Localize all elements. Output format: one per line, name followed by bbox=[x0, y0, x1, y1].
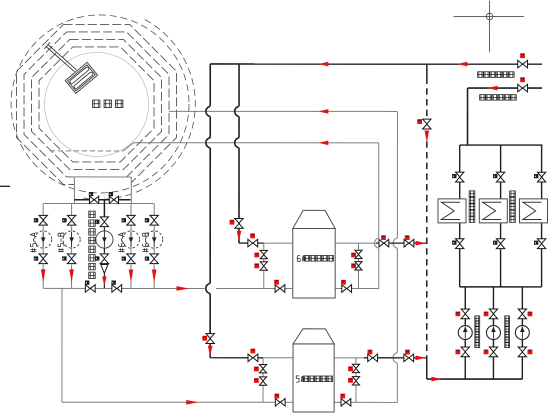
heater E2 inlet branch bbox=[500, 145, 502, 199]
heater E3 outlet branch bbox=[541, 223, 543, 287]
6# condenser (6#机组凝汽器) body bbox=[293, 210, 335, 298]
basin white mask bbox=[74, 177, 131, 204]
pump label #6-B bbox=[142, 233, 148, 252]
HN pump 1 suction branch bbox=[464, 287, 466, 327]
pump 3 circle bbox=[96, 231, 113, 248]
flow arrow left on tower pipe 2 bbox=[319, 141, 329, 146]
pump 3 valve-to-pump pipe bbox=[103, 227, 105, 231]
tower supply pipe 1 horizontal (y=111.4) bbox=[169, 110, 398, 112]
tower pipe 2 diagonal rise bbox=[123, 143, 134, 151]
basin left wall bbox=[73, 177, 75, 204]
pump suction riser #6-A bbox=[130, 204, 132, 216]
HN pump 3 discharge pipe bbox=[521, 340, 523, 380]
bottom line valve left bbox=[274, 394, 285, 407]
pump 1 discharge pipe bbox=[42, 248, 44, 253]
diagonal line end cap bbox=[44, 42, 50, 49]
6# inlet drop pipe (x=239) with jump bumps bbox=[235, 64, 239, 243]
cooling tower octagon ring 2 bbox=[24, 32, 169, 177]
HN pump label 热网循环水泵 (right) bbox=[505, 316, 510, 348]
flow arrow left on return header (right) bbox=[457, 62, 467, 67]
heater E1 outlet valve bbox=[452, 239, 464, 249]
5# left bypass pipe bbox=[262, 358, 264, 403]
6# bottom line valve left bbox=[274, 280, 285, 293]
cooling tower octagon ring 3 bbox=[32, 39, 162, 169]
pump 1 outlet valve bbox=[34, 254, 48, 264]
heater outlet header (y=286.8) bbox=[460, 286, 542, 288]
HN pump label 热网循环水泵 (left) bbox=[475, 316, 480, 348]
heater E1 outlet branch bbox=[459, 223, 461, 287]
heater E1 (热网加热器) body bbox=[438, 199, 466, 223]
heater E2 inlet valve bbox=[493, 172, 505, 182]
new pump label 新增变频循环水泵 (vertical) bbox=[89, 211, 96, 278]
label 热网回水管道 bbox=[478, 72, 515, 78]
flow arrow left on tower pipe 1 bbox=[319, 109, 329, 114]
HN pump 2 discharge valve bbox=[484, 347, 498, 357]
dashed main isolating valve bbox=[417, 119, 431, 129]
pump 4 pipe to header bbox=[130, 264, 132, 288]
heater E3 inlet valve bbox=[534, 172, 546, 182]
flow arrow left on return header (mid) bbox=[319, 62, 329, 67]
header valve 1 bbox=[85, 281, 95, 293]
6# outlet valve 2 bbox=[404, 235, 414, 247]
flow arrow right into dashed main (5#) bbox=[416, 356, 426, 361]
pump 2 pipe to header bbox=[71, 264, 73, 288]
5# left bypass valve lower bbox=[254, 377, 267, 385]
heater E3 outlet valve bbox=[534, 239, 546, 249]
6# right bypass valve upper bbox=[351, 250, 362, 258]
pump 4 circle bbox=[122, 231, 139, 248]
HN pump 2 discharge pipe bbox=[492, 340, 494, 380]
heater E1 inlet valve bbox=[452, 172, 464, 182]
blowdown pipe left vertical (x=62) bbox=[61, 288, 63, 402]
basin top edge bbox=[74, 176, 131, 178]
HN pump 1 (热网循环水泵) bbox=[458, 326, 472, 340]
5# condenser label bbox=[296, 376, 332, 382]
heat-network return header pipe (y=64) bbox=[210, 63, 542, 65]
pump 5 discharge pipe bbox=[153, 248, 155, 253]
pump 5 flow arrow bbox=[152, 269, 157, 282]
5# right bypass valve lower bbox=[348, 377, 359, 385]
5# left bypass valve upper bbox=[254, 364, 267, 372]
6# outlet pipe (y=243.1) bbox=[335, 242, 426, 244]
new pump suction riser (black) bbox=[103, 200, 105, 217]
supply pipe drop to heater header bbox=[467, 88, 469, 145]
pump 4 discharge pipe bbox=[130, 248, 132, 253]
pump 2 circle bbox=[63, 231, 80, 248]
bottom return line (y=402.3) bbox=[62, 401, 397, 403]
heater label 热网加热器 (right) bbox=[510, 191, 516, 223]
flow arrow right on discharge header bbox=[176, 286, 189, 291]
HN pump 3 discharge valve bbox=[518, 347, 532, 357]
header valve 2 bbox=[111, 281, 121, 293]
pump 4 flow arrow bbox=[129, 269, 134, 282]
cooling tower octagon ring 1 (outer) bbox=[17, 24, 177, 184]
cooling tower outer dashed arc (east side) bbox=[83, 20, 195, 200]
tower supply pipe 2 dashed tail inside tower bbox=[50, 150, 123, 152]
pump suction riser #5-B bbox=[71, 204, 73, 216]
CAD crosshair center mark bbox=[453, 1, 524, 52]
heater inlet header (y=145) bbox=[460, 144, 543, 146]
tower internal tilted structure (water distributor box) bbox=[65, 62, 97, 93]
pump 2 inlet valve bbox=[62, 215, 76, 225]
tower label 间冷塔 bbox=[93, 100, 123, 107]
heater E2 outlet valve bbox=[493, 239, 505, 249]
pump label #5-B bbox=[58, 233, 64, 252]
pump 4 outlet valve bbox=[122, 254, 136, 264]
supply pipe valve bbox=[518, 77, 528, 92]
tower access double diagonal line bbox=[46, 45, 76, 72]
5# outlet pipe (y=357.8) bbox=[334, 357, 426, 359]
label 热网供水管道 bbox=[480, 95, 517, 101]
left edge reference tick bbox=[0, 185, 10, 187]
heater E1 inlet branch bbox=[459, 145, 461, 199]
pump 5 valve-to-pump pipe bbox=[153, 226, 155, 231]
pump 1 flow arrow bbox=[41, 269, 46, 282]
forebay top line bbox=[43, 203, 153, 205]
HN pump 1 discharge pipe bbox=[464, 340, 466, 380]
pump 2 outlet valve bbox=[62, 254, 76, 264]
6# right bypass pipe bbox=[357, 243, 359, 288]
5# inlet pipe (y=357.8) bbox=[210, 357, 293, 359]
6# left bypass valve lower bbox=[254, 262, 267, 270]
pump 3 discharge pipe bbox=[103, 248, 105, 253]
tower supply pipe 2 horizontal (y=142.8) bbox=[134, 142, 379, 144]
6# inlet block valve bbox=[248, 233, 258, 247]
pump suction riser #6-B bbox=[153, 204, 155, 216]
6# outlet valve 1 bbox=[379, 235, 389, 247]
new pump pipe to header bbox=[103, 273, 105, 288]
pump 5 pipe to header bbox=[153, 264, 155, 288]
pump 2 discharge pipe bbox=[71, 248, 73, 253]
5# inlet block valve bbox=[248, 349, 258, 362]
pump 5 circle bbox=[146, 231, 163, 248]
pump label #5-A bbox=[30, 233, 36, 253]
HN pump 2 suction branch bbox=[492, 287, 494, 327]
heater label 热网加热器 (left) bbox=[469, 191, 475, 223]
flow arrow down to 6# condenser bbox=[237, 231, 242, 242]
heat-network supply pipe (y=88) bbox=[468, 87, 542, 89]
pump 3 inlet valve bbox=[95, 217, 109, 227]
pump 5 inlet valve bbox=[145, 215, 159, 225]
basin outlet header (black) bbox=[74, 199, 130, 201]
basin right wall bbox=[130, 177, 132, 204]
new pump flow arrow bbox=[102, 276, 107, 285]
basin valve 1 bbox=[89, 192, 99, 203]
existing circulating-water dashed main (x=426.8) bbox=[426, 64, 428, 379]
6# right bypass valve lower bbox=[351, 262, 362, 270]
pump 5 outlet valve bbox=[145, 254, 159, 264]
heater E3 inlet branch bbox=[541, 145, 543, 199]
5# right bypass pipe bbox=[355, 358, 357, 403]
6# left bypass valve upper bbox=[254, 250, 267, 258]
6# inlet pipe (y=243.1) bbox=[239, 242, 293, 244]
HN pump 3 (热网循环水泵) bbox=[515, 326, 529, 340]
pump 1 circle bbox=[35, 231, 52, 248]
flow arrow right on bottom return line bbox=[186, 400, 198, 405]
pump 1 valve-to-pump pipe bbox=[42, 226, 44, 231]
cooling tower inner circle bbox=[45, 52, 149, 156]
pump 3 outlet valve bbox=[95, 254, 109, 264]
pump 1 inlet valve bbox=[34, 215, 48, 225]
heater E2 (热网加热器) body bbox=[479, 199, 507, 223]
pump suction riser #5-A bbox=[42, 204, 44, 216]
5# inlet drop pipe (x=210.2) with jump bumps bbox=[206, 64, 210, 358]
5# outlet valve 1 bbox=[368, 350, 378, 362]
5# condenser (5#机组凝汽器) body bbox=[293, 329, 334, 412]
pump discharge header (y=288.5) bbox=[43, 287, 379, 289]
tower pipe 1 vertical riser (x=397.4) with jump bumps bbox=[393, 111, 397, 402]
HN pump 1 discharge valve bbox=[455, 347, 469, 357]
5# inlet valve (vertical) bbox=[202, 334, 214, 344]
pump 2 valve-to-pump pipe bbox=[71, 226, 73, 231]
5# outlet valve 2 bbox=[404, 350, 414, 362]
cooling tower octagon ring 4 (inner) bbox=[39, 47, 154, 162]
bottom line valve right bbox=[340, 394, 351, 407]
HN pump 1 suction valve bbox=[455, 309, 469, 319]
flow arrow left on supply pipe bbox=[487, 86, 497, 91]
pump 4 inlet valve bbox=[122, 215, 136, 225]
6# bottom line valve right bbox=[341, 280, 352, 293]
HN pump 2 (热网循环水泵) bbox=[486, 326, 500, 340]
flow arrow right into dashed main (6#) bbox=[416, 241, 426, 246]
HN pump suction header (y=379) bbox=[427, 378, 523, 380]
6# condenser label bbox=[297, 255, 333, 261]
pump 2 flow arrow bbox=[69, 269, 74, 282]
flow arrow right on HN pump header bbox=[431, 377, 442, 382]
new pump check valve bbox=[101, 265, 108, 274]
6# inlet valve (vertical) bbox=[230, 218, 244, 228]
6# left bypass pipe bbox=[263, 243, 265, 288]
pump 4 valve-to-pump pipe bbox=[130, 226, 132, 231]
HN pump 3 suction valve bbox=[518, 309, 532, 319]
HN pump 2 suction valve bbox=[484, 309, 498, 319]
cooling tower second dashed circle bbox=[11, 15, 189, 193]
HN pump 3 suction branch bbox=[521, 287, 523, 327]
heater E3 (热网加热器) body bbox=[519, 199, 547, 223]
basin valve 2 bbox=[109, 192, 119, 203]
return header valve bbox=[518, 53, 528, 68]
5# right bypass valve upper bbox=[348, 364, 359, 372]
flow arrow down on dashed main bbox=[425, 131, 430, 143]
pump 1 pipe to header bbox=[42, 264, 44, 288]
heater E2 outlet branch bbox=[500, 223, 502, 287]
tower pipe 2 vertical riser (x=378.8) with jump bump bbox=[374, 143, 378, 289]
flow arrow down to 5# condenser bbox=[208, 346, 213, 357]
pump label #6-A bbox=[118, 233, 124, 253]
